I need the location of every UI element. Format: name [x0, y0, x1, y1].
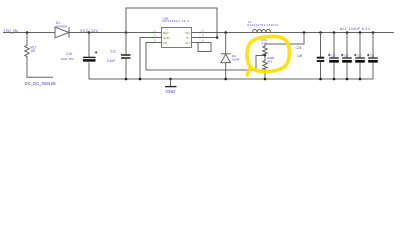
wire C12 bottom to rail — [125, 58, 127, 79]
svg-text:5: 5 — [202, 33, 204, 37]
svg-text:2: 2 — [155, 33, 157, 37]
wire junction down to R17 — [26, 33, 28, 45]
svg-text:C30: C30 — [357, 55, 362, 58]
annotation yellow highlight circle — [247, 36, 289, 75]
capacitor C16 polarized — [83, 56, 96, 58]
wire inductor to output — [249, 32, 394, 34]
node junction D2 top — [224, 31, 227, 34]
wire FB pin to divider tap — [146, 43, 264, 71]
svg-text:FB: FB — [163, 41, 167, 45]
wire IN pin horizontal — [200, 37, 217, 39]
svg-text:SW: SW — [185, 31, 190, 35]
capacitor C28 — [333, 31, 336, 34]
node junction IN pin — [216, 36, 219, 39]
svg-text:1: 1 — [155, 28, 157, 32]
svg-text:C16: C16 — [66, 52, 72, 56]
resistor R7A upper divider — [263, 44, 267, 56]
node junction divider rail — [264, 78, 267, 81]
svg-text:5K1: 5K1 — [268, 60, 273, 64]
svg-text:C12: C12 — [110, 49, 116, 53]
svg-text:GND: GND — [163, 36, 171, 40]
svg-text:C29: C29 — [344, 55, 349, 58]
wire lower divider to rail — [264, 71, 266, 80]
node junction GND rail — [139, 78, 142, 81]
wire diode cathode to BST pin — [69, 32, 154, 34]
wire EN loop rectangle — [198, 43, 211, 52]
svg-text:1M: 1M — [31, 49, 36, 53]
svg-text:C28: C28 — [331, 55, 336, 58]
svg-text:ALL 100UF 6.3V: ALL 100UF 6.3V — [340, 27, 371, 31]
node junction D2 rail — [224, 78, 227, 81]
wire divider feed down-left — [265, 33, 304, 45]
svg-text:B0540W: B0540W — [56, 25, 68, 29]
svg-text:4: 4 — [202, 38, 204, 42]
wire VCC riser over IC to IN pin — [126, 8, 217, 38]
capacitor C12 — [121, 54, 131, 56]
svg-text:SS34: SS34 — [232, 58, 240, 62]
wire R17 down and right (sense stub) — [27, 58, 53, 77]
capacitor C31 — [372, 31, 375, 34]
node junction input/resistor — [26, 31, 29, 34]
wire D2 cathode vertical — [225, 33, 227, 54]
diode D2 — [221, 53, 231, 55]
wire C12 vertical — [125, 33, 127, 55]
resistor R1B1 lower divider — [263, 56, 267, 71]
wire down to C16 — [88, 33, 90, 58]
node junction FB tap — [264, 54, 266, 56]
svg-text:PA4343TR3-152NLT: PA4343TR3-152NLT — [248, 23, 279, 27]
diode D1 — [55, 27, 69, 38]
ground — [169, 78, 172, 81]
svg-text:GND: GND — [166, 89, 176, 94]
pin 5 IN — [192, 37, 201, 39]
pin 6 SW — [192, 32, 201, 34]
svg-text:IN: IN — [186, 36, 189, 40]
svg-text:10uF 16V: 10uF 16V — [61, 57, 74, 61]
svg-text:1uF: 1uF — [297, 54, 303, 58]
pin 2 GND — [153, 37, 162, 39]
capacitor C24 — [319, 31, 322, 34]
capacitor C29 — [346, 31, 349, 34]
svg-text:6: 6 — [202, 28, 204, 32]
svg-text:0.1uF: 0.1uF — [107, 59, 115, 63]
wire C16 bottom to ground rail — [89, 62, 373, 79]
svg-text:DC_DC_SENSE: DC_DC_SENSE — [25, 81, 57, 86]
pin 4 EN — [192, 42, 201, 44]
svg-text:4.7K: 4.7K — [262, 42, 268, 46]
node junction C16 — [88, 31, 91, 34]
svg-text:3: 3 — [155, 38, 157, 42]
svg-text:EN: EN — [186, 41, 190, 45]
wire input to diode anode — [3, 32, 55, 34]
pin 3 FB — [153, 42, 162, 44]
wire D2 anode to rail — [225, 63, 227, 79]
wire GND pin to rail — [140, 38, 153, 80]
svg-text:C31: C31 — [370, 55, 375, 58]
capacitor C30 — [359, 31, 362, 34]
node junction C12 top — [125, 31, 128, 34]
node junction C12 rail — [125, 78, 128, 81]
svg-text:BST: BST — [163, 31, 169, 35]
resistor R17 — [25, 44, 29, 58]
node junction divider feed — [303, 31, 306, 34]
svg-text:C24: C24 — [296, 46, 302, 50]
svg-text:MP2456GJ-LF-Z: MP2456GJ-LF-Z — [163, 19, 190, 23]
wire SW pin to inductor — [200, 32, 249, 34]
op-amp U1B regulator box — [162, 28, 192, 48]
pin 1 BST — [153, 32, 162, 34]
